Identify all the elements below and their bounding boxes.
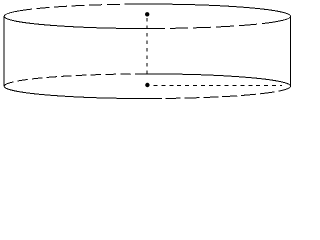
left side line xyxy=(3,16,5,86)
bottom ellipse back-right solid arc xyxy=(140,74,291,86)
dashed axis line between centers xyxy=(146,18,148,78)
top ellipse front-left solid arc xyxy=(4,16,165,28)
dashed radius line xyxy=(154,85,283,87)
top ellipse back-left dashed arc xyxy=(32,4,134,9)
right side line xyxy=(290,16,292,86)
top ellipse front-right dashed arc xyxy=(165,22,272,28)
top ellipse back-right solid arc xyxy=(134,4,291,16)
bottom ellipse front-left solid arc xyxy=(4,86,162,98)
bottom ellipse front-right dashed arc xyxy=(162,86,291,98)
top ellipse back-left solid nub xyxy=(4,9,32,16)
top ellipse front-right solid nub xyxy=(272,16,291,22)
cylinder diagram xyxy=(0,0,294,104)
bottom ellipse back-left dashed arc xyxy=(4,74,140,86)
bottom center dot xyxy=(145,83,149,87)
top center dot xyxy=(145,12,149,16)
